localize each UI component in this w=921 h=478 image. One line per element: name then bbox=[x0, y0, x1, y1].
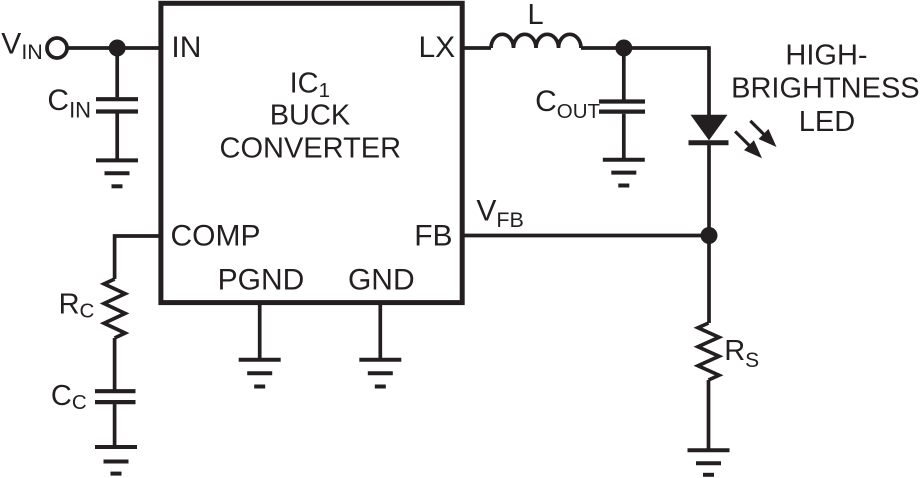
svg-text:BRIGHTNESS: BRIGHTNESS bbox=[731, 73, 920, 105]
svg-text:FB: FB bbox=[414, 219, 452, 252]
node VIN junction bbox=[109, 40, 126, 57]
svg-text:LX: LX bbox=[419, 31, 456, 64]
resistor RS bbox=[698, 323, 719, 380]
terminal VIN input bbox=[47, 38, 67, 58]
node FB junction bbox=[701, 227, 718, 244]
LED D1 triangle bbox=[691, 115, 728, 141]
wire RC to CC bbox=[113, 338, 117, 391]
inductor L bbox=[491, 34, 581, 48]
svg-text:HIGH-: HIGH- bbox=[785, 40, 867, 72]
wire COMP to RC column bbox=[115, 236, 160, 279]
wire LX to inductor bbox=[462, 46, 491, 50]
svg-text:PGND: PGND bbox=[218, 263, 305, 296]
svg-text:COMP: COMP bbox=[171, 220, 261, 253]
wire junction down to COUT bbox=[622, 48, 626, 100]
svg-text:CONVERTER: CONVERTER bbox=[220, 133, 402, 165]
wire LED down through FB node to RS bbox=[707, 144, 711, 323]
ground below GND bbox=[359, 360, 401, 387]
capacitor COUT bbox=[599, 102, 645, 112]
capacitor CC bbox=[95, 391, 136, 402]
capacitor CIN bbox=[96, 99, 138, 111]
LED light arrow 2 bbox=[745, 116, 781, 152]
ground below RS bbox=[688, 450, 730, 475]
ground below CIN bbox=[96, 160, 138, 186]
wire VIN to IN bbox=[67, 46, 160, 50]
label HIGH-BRIGHTNESS LED bbox=[731, 40, 920, 138]
wire inductor to LED column bbox=[581, 46, 709, 50]
ground below CC bbox=[95, 447, 137, 474]
wire CIN to ground bbox=[115, 114, 119, 161]
ground below COUT bbox=[603, 160, 645, 186]
ground below PGND bbox=[239, 360, 281, 387]
svg-text:BUCK: BUCK bbox=[270, 99, 351, 131]
wire junction down to CIN bbox=[115, 48, 119, 97]
wire top rail down to LED bbox=[707, 46, 711, 116]
wire PGND pin bbox=[258, 302, 262, 360]
LED cathode bar bbox=[689, 140, 729, 145]
node LX output junction bbox=[615, 40, 632, 57]
svg-text:GND: GND bbox=[348, 263, 415, 296]
resistor RC bbox=[104, 279, 125, 338]
svg-text:IN: IN bbox=[171, 31, 201, 64]
wire GND pin bbox=[378, 302, 382, 360]
svg-text:LED: LED bbox=[799, 106, 855, 138]
wire FB to LED column bbox=[462, 234, 709, 238]
wire RS to ground bbox=[707, 380, 711, 450]
LED light arrow 1 bbox=[730, 126, 767, 163]
op-amp U1 : IC1 buck converter box bbox=[161, 3, 462, 302]
wire CC to ground bbox=[113, 404, 117, 447]
svg-text:L: L bbox=[528, 0, 544, 31]
wire COUT to ground bbox=[622, 114, 626, 160]
